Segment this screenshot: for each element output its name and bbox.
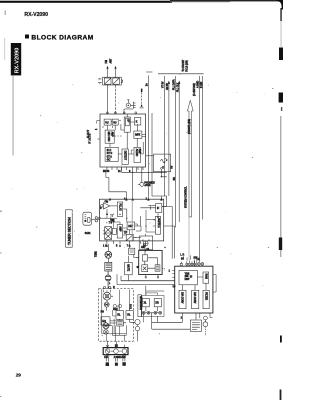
phono top pins	[103, 287, 111, 289]
FM antenna lead 1	[106, 60, 109, 77]
IC block: mixer/osc	[105, 130, 114, 143]
stray specks right	[217, 88, 274, 248]
aux box L	[142, 298, 149, 306]
wire decoder to tuner det	[133, 237, 136, 239]
AM loop input circuit	[124, 89, 144, 114]
wire IC pin to tuner	[106, 168, 167, 201]
svg-text:A GND: A GND	[114, 356, 122, 359]
svg-text:MIX OSC: MIX OSC	[107, 132, 109, 142]
svg-text:REC: REC	[113, 309, 118, 311]
tuner: buffer box right top	[156, 204, 162, 213]
svg-text:5V: 5V	[172, 165, 174, 168]
ext label box	[138, 295, 141, 317]
section heading BLOCK DIAGRAM	[25, 35, 29, 39]
svg-text:BLOCK DIAGRAM: BLOCK DIAGRAM	[31, 34, 93, 41]
svg-text:AMP: AMP	[138, 149, 141, 154]
svg-text:R: R	[113, 287, 115, 289]
DSP box right pin	[213, 275, 216, 293]
svg-text:PLL CLK: PLL CLK	[178, 82, 180, 92]
wire: bus drop 6	[201, 76, 203, 220]
surround out box	[190, 320, 201, 331]
DSP top pins	[180, 261, 204, 267]
small junction dot	[164, 247, 165, 248]
tuner bottom pin arrows	[107, 241, 140, 244]
control bus line	[158, 73, 204, 75]
DSP left edge pins	[172, 270, 175, 277]
through wire in tuner	[131, 199, 133, 240]
svg-text:RX-V2090: RX-V2090	[15, 48, 21, 74]
wire balun to IC pin 2	[115, 85, 117, 114]
svg-text:IN: IN	[181, 259, 184, 261]
antenna plug 2	[115, 358, 118, 366]
IC block: narrow filter top	[124, 117, 130, 132]
svg-text:S101: S101	[85, 233, 91, 235]
svg-text:XR: XR	[155, 302, 159, 304]
aux frame	[142, 295, 164, 316]
rec out box	[117, 321, 124, 326]
svg-text:L R: L R	[180, 254, 184, 256]
right edge scan marks	[279, 48, 283, 61]
svg-text:JACK: JACK	[144, 184, 151, 187]
tuner top pin arrows	[125, 198, 162, 201]
svg-text:B 13V: B 13V	[201, 81, 203, 88]
svg-text:T102: T102	[95, 251, 97, 257]
AM detector box	[139, 234, 153, 252]
DSP bottom pins	[182, 313, 212, 322]
svg-text:AMP: AMP	[110, 132, 113, 137]
tuner front-end box	[100, 199, 164, 241]
wire balun to IC pin 1	[107, 85, 109, 114]
svg-text:ANT: ANT	[110, 58, 113, 63]
IC block: RF amp B	[112, 119, 118, 125]
phono amp box	[101, 317, 110, 325]
aux box R	[154, 298, 161, 306]
svg-text:DETECT: DETECT	[123, 151, 125, 161]
jack wires	[146, 286, 164, 317]
svg-text:DET: DET	[128, 226, 133, 228]
svg-text:AM 5V: AM 5V	[166, 83, 169, 90]
wire: bus drop 5	[197, 76, 200, 262]
detector coil box	[129, 247, 139, 258]
svg-text:7 9: 7 9	[127, 245, 131, 247]
tuner: output transformer	[126, 234, 133, 240]
svg-text:SYSTEM CONTROL: SYSTEM CONTROL	[186, 186, 188, 208]
tuner: ceramic filter	[112, 228, 117, 234]
svg-text:FM: FM	[104, 357, 108, 359]
svg-text:TUNER SECTION: TUNER SECTION	[68, 217, 72, 245]
tuner top edge pin arrow	[109, 198, 111, 201]
decoder bottom pins	[146, 275, 158, 277]
svg-text:VT 9V: VT 9V	[163, 81, 165, 88]
svg-text:RAM: RAM	[205, 274, 208, 279]
DSP box U301	[175, 266, 213, 313]
DSP dac block 3	[203, 290, 209, 308]
selector wafer C	[135, 319, 140, 330]
selector wafer A	[103, 323, 109, 329]
tuner: detector block	[127, 222, 135, 230]
muting block	[125, 256, 133, 281]
IC block: small top right	[134, 118, 140, 125]
dashed box bottom pin stubs	[106, 326, 124, 342]
phono eq circle	[104, 302, 109, 307]
svg-text:AUDIO: AUDIO	[135, 149, 138, 157]
svg-text:AM: AM	[122, 356, 126, 359]
IC bottom pin ticks	[107, 167, 143, 170]
DSP dac block 1	[179, 290, 186, 308]
phono section dashed box	[99, 289, 134, 342]
svg-text:CF: CF	[124, 233, 128, 235]
svg-text:SW: SW	[193, 257, 198, 259]
input select box 2	[126, 311, 133, 320]
svg-text:VU: VU	[113, 122, 117, 124]
DSP internal wires	[182, 277, 206, 290]
tuner: IF amp block	[117, 225, 122, 238]
FM antenna lead 2	[110, 58, 117, 77]
svg-text:DSP: DSP	[185, 279, 190, 281]
IC pin stub left	[97, 121, 100, 139]
svg-text:ET A: ET A	[107, 155, 112, 158]
svg-text:SD: SD	[174, 177, 176, 181]
wire: bus drop 1	[163, 76, 165, 196]
svg-text:NT D: NT D	[107, 153, 113, 155]
svg-text:MPX: MPX	[135, 135, 140, 137]
buffer amp Q101	[146, 154, 171, 172]
svg-text:PHONES: PHONES	[144, 182, 155, 184]
svg-text:TO B: TO B	[131, 304, 133, 310]
tuner: AGC amp triangle	[100, 201, 117, 209]
IC block: right tall	[134, 147, 141, 162]
tuner IC U101 outline	[100, 114, 146, 167]
wire IC to jack	[141, 167, 143, 182]
aux frame top pins	[146, 293, 158, 296]
jack pair L	[142, 311, 150, 322]
svg-text:1 3: 1 3	[103, 245, 107, 247]
tuner: osc block	[117, 202, 122, 216]
left spine tab RX-V2090	[11, 43, 21, 75]
svg-text:IF C: IF C	[107, 150, 112, 152]
DSP top pin stubs	[184, 255, 197, 266]
DSP dac block 2	[192, 290, 199, 308]
wire: bus drop 2	[166, 81, 170, 197]
left margin artifacts	[0, 115, 41, 397]
svg-text:MUTE: MUTE	[127, 264, 129, 271]
tuner extra interior wires	[101, 209, 138, 235]
svg-text:FILTER: FILTER	[205, 292, 207, 300]
svg-text:S-MTR A: S-MTR A	[157, 218, 160, 228]
page corner (top-right)	[277, 0, 283, 10]
IC extra interior wires	[103, 121, 134, 155]
phono internal wires	[106, 296, 138, 341]
rear panel terminal strip	[103, 344, 128, 354]
dashed box small parts	[113, 304, 122, 307]
svg-text:IF 10.7M: IF 10.7M	[89, 134, 91, 144]
bus label above	[183, 59, 188, 71]
wire IC mixer out	[132, 170, 134, 200]
svg-text:GC: GC	[107, 159, 111, 161]
svg-text:EXTENSION: EXTENSION	[139, 296, 141, 310]
svg-text:29: 29	[16, 373, 22, 378]
dashed ground stub	[204, 327, 206, 337]
svg-text:D/A CONV: D/A CONV	[181, 292, 184, 304]
svg-text:RX-V2090: RX-V2090	[24, 12, 48, 18]
dashed box interior wires	[102, 290, 130, 336]
audio return lines	[152, 322, 190, 329]
svg-text:D/A CONV: D/A CONV	[193, 292, 196, 304]
audio bus lines	[121, 280, 175, 282]
wire: bus drop 3	[173, 76, 176, 228]
svg-text:PH: PH	[101, 311, 105, 313]
svg-text:(C-4RPC01): (C-4RPC01)	[194, 83, 196, 96]
svg-text:55 56: 55 56	[103, 171, 110, 173]
tuner: AGC box right	[146, 213, 161, 234]
antenna balun T101	[98, 77, 123, 85]
svg-text:(FRONT) (3/6): (FRONT) (3/6)	[189, 119, 191, 134]
DSP side block	[203, 272, 209, 283]
wire right feeds to tuner	[152, 196, 167, 207]
crystal X101	[83, 212, 100, 235]
antenna plug 1	[106, 357, 109, 366]
IC block: right mid	[134, 131, 142, 138]
svg-text:AMP: AMP	[119, 226, 122, 231]
jack pair R	[154, 311, 162, 314]
wire: supply drop x152	[151, 113, 153, 196]
input select box 1	[116, 311, 123, 320]
svg-text:TO FRONT: TO FRONT	[183, 59, 185, 71]
wire: bus drop 4	[178, 81, 181, 223]
wire tuner to coil	[107, 244, 109, 263]
svg-text:IC: IC	[189, 275, 191, 278]
tuner interior extra wires	[104, 206, 156, 233]
svg-text:PLL DATA: PLL DATA	[173, 79, 176, 90]
svg-text:FM: FM	[106, 60, 108, 63]
svg-text:A GND: A GND	[197, 80, 200, 88]
IC top pin arrows	[107, 112, 137, 114]
IC block: narrow filter bottom	[122, 149, 128, 164]
headphone driver circle	[203, 316, 208, 327]
strip feed wires	[106, 341, 124, 347]
B+ line stub	[146, 71, 152, 73]
svg-text:CK: CK	[197, 259, 201, 261]
svg-text:FM: FM	[105, 201, 109, 203]
IC block: RF amp A	[104, 119, 111, 125]
selector shaft marks	[103, 292, 111, 300]
tuner: IF transformer stack	[103, 227, 111, 240]
tuner junction dots	[110, 218, 147, 227]
discriminator coil	[95, 251, 111, 259]
selector wafer B	[104, 330, 109, 335]
IC block: IF counter	[105, 147, 118, 161]
svg-text:PLL IC: PLL IC	[119, 204, 121, 211]
AM osc coil	[105, 271, 111, 289]
tuner internal wires	[107, 206, 156, 241]
antenna plug 3	[122, 357, 125, 366]
tuner right output stubs	[162, 206, 175, 258]
page top edge bar	[0, 1, 172, 3]
TUNER SECTION label box	[66, 210, 73, 247]
headphone jack	[138, 181, 155, 188]
hollow bus arrow up	[187, 100, 193, 217]
ratio detector box	[105, 262, 112, 271]
svg-text:P.C.B (1/6): P.C.B (1/6)	[186, 60, 188, 71]
DSP core block	[179, 270, 197, 284]
svg-text:VU: VU	[105, 122, 109, 124]
IC internal wires	[108, 114, 146, 154]
svg-text:7 6: 7 6	[109, 223, 113, 225]
wire: supply drop x148	[147, 75, 149, 200]
stereo decoder box	[136, 247, 165, 274]
phono input selector circle	[103, 290, 111, 302]
